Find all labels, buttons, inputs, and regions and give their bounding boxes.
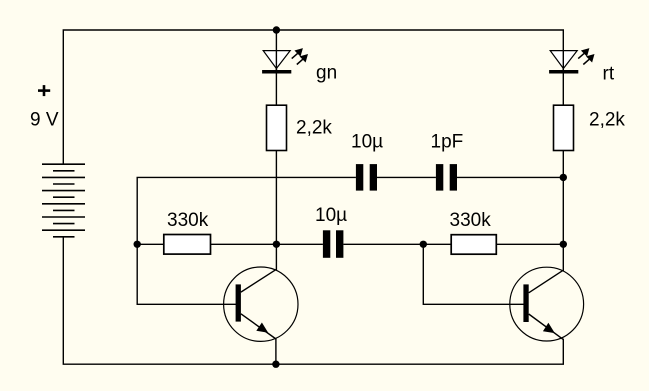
wire top rail + left rail upper + LED2 branch vertical: [63, 30, 563, 271]
label + (battery positive): [38, 85, 50, 96]
transistor Q1: [224, 267, 298, 341]
LED D2 cathode bar: [549, 70, 578, 74]
capacitor C2 1pF: [436, 164, 457, 191]
node top rail / LED1 branch: [273, 26, 280, 33]
capacitor C1 10µ: [356, 164, 377, 191]
LED D2 triangle: [550, 51, 577, 69]
svg-text:10µ: 10µ: [315, 205, 347, 226]
wire row2 segment d: [496, 243, 563, 245]
LED D1 triangle: [263, 51, 290, 69]
wire LED1 branch vertical: [275, 30, 277, 271]
svg-text:2,2k: 2,2k: [296, 118, 332, 139]
resistor R3 330k: [164, 235, 211, 255]
wire Q1 emitter to rail: [275, 338, 277, 364]
wire row2 segment c: [343, 243, 451, 245]
battery B1: [42, 164, 85, 237]
wire row2 segment a: [137, 243, 164, 245]
wire left rail lower + bottom rail + Q2 emitter drop: [63, 237, 563, 364]
transistor Q2: [510, 267, 584, 341]
node row2 / Q2 base drop: [420, 241, 427, 248]
resistor R1 2,2k: [267, 105, 287, 150]
wire row1 right segment: [457, 176, 563, 178]
wire Q2 base drop vertical + base lead: [423, 244, 524, 304]
wire through LED D1: [275, 50, 277, 70]
resistor R2 2,2k: [554, 105, 574, 150]
svg-text:2,2k: 2,2k: [589, 109, 625, 130]
svg-text:1pF: 1pF: [431, 131, 464, 152]
node left branch / R3: [134, 241, 141, 248]
svg-text:330k: 330k: [167, 210, 209, 231]
svg-text:10µ: 10µ: [351, 131, 383, 152]
svg-text:330k: 330k: [450, 210, 492, 231]
svg-text:gn: gn: [316, 63, 337, 84]
node row2 / LED2 branch: [560, 241, 567, 248]
wire row2 segment b: [211, 243, 323, 245]
LED D2 emission arrows: [578, 48, 594, 64]
node Q1 emitter / bottom rail: [272, 361, 279, 368]
wire row1 left segment + left branch vertical + Q1 base lead: [137, 177, 356, 304]
svg-text:9 V: 9 V: [30, 109, 59, 130]
capacitor C3 10µ: [323, 230, 344, 257]
LED D1 emission arrows: [292, 48, 308, 64]
svg-text:rt: rt: [603, 63, 615, 84]
node LED1 branch / row2: [273, 241, 280, 248]
wire through LED D2: [562, 50, 564, 70]
LED D1 cathode bar: [262, 70, 291, 74]
wire row1 mid segment: [377, 176, 436, 178]
node row1 / LED2 branch: [560, 174, 567, 181]
resistor R4 330k: [451, 235, 496, 255]
